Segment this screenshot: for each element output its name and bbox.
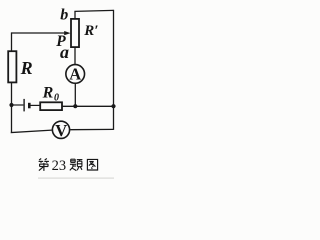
svg-text:a: a [60,42,69,62]
wire: left vertical upper segment [11,32,13,50]
wire: bottom right (voltmeter to right corner) [70,128,113,130]
svg-text:R: R [20,58,33,78]
battery long plate (+) [23,99,25,112]
wire: top-left horizontal (wiper lead from left branch) [12,32,66,34]
wire: top right horizontal [74,10,113,11]
svg-text:R′: R′ [83,23,98,39]
wire: R0 to right branch [62,105,113,107]
voltmeter V [52,121,69,138]
caption character 第 [39,159,49,171]
resistor R0 [40,102,62,110]
wire: R' top stub [74,11,76,19]
junction node: ammeter tap [73,104,77,108]
wire: right vertical [113,10,115,130]
svg-text:0: 0 [54,93,59,104]
wire: battery to R0 [30,104,39,106]
wire: bottom left (to voltmeter) [11,130,52,132]
wire: left vertical lower segment [11,83,13,133]
svg-text:23: 23 [52,158,67,174]
wire: R' bottom stub to ammeter [74,47,76,65]
junction node: right [111,104,115,108]
caption character 图 [87,159,97,170]
ammeter A [66,65,85,84]
caption character 题 [70,159,83,170]
junction node: left (battery tap) [9,103,13,107]
rheostat R' (slide resistor body) [71,19,79,47]
wire: battery left lead [12,104,24,106]
wire: ammeter to middle wire [74,83,76,106]
battery short plate (-) [28,103,31,109]
scan artifact: faint streak below caption [38,178,114,179]
resistor R [8,51,16,82]
wiper arrow P (arrowhead touching R' left side) [64,31,70,35]
svg-text:R: R [42,84,54,101]
svg-text:V: V [55,121,67,140]
svg-text:b: b [60,7,68,24]
svg-text:A: A [69,64,81,83]
